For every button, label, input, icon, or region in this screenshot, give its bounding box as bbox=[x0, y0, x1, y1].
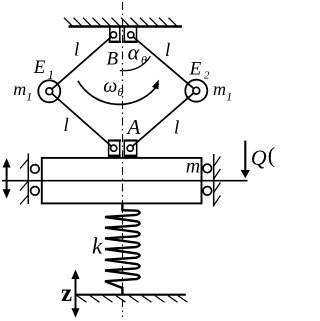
svg-text:m: m bbox=[13, 79, 26, 99]
svg-text:1: 1 bbox=[48, 67, 55, 82]
ceiling hatching bbox=[64, 18, 177, 26]
spring k bbox=[105, 204, 140, 296]
wire: rod l bottom-right (E2 to pin A-right) bbox=[130, 91, 196, 149]
bottom-right clevis bracket at A bbox=[123, 139, 137, 141]
rotation arc omega0 bbox=[78, 81, 159, 105]
long horizontal equilibrium line bbox=[2, 180, 248, 182]
left guide wall bbox=[27, 154, 29, 205]
angle arc alpha0 bbox=[120, 56, 151, 70]
svg-text:2: 2 bbox=[204, 70, 210, 82]
motor E1 outer circle bbox=[38, 80, 60, 102]
svg-text:θ: θ bbox=[141, 53, 147, 67]
svg-text:E: E bbox=[189, 58, 202, 79]
left roller upper bbox=[31, 165, 40, 174]
top-left clevis bracket at B bbox=[110, 28, 120, 42]
svg-text:(: ( bbox=[268, 142, 275, 167]
svg-text:α: α bbox=[128, 40, 140, 65]
arrowhead of omega0 arc bbox=[152, 80, 159, 90]
left roller lower bbox=[31, 187, 40, 196]
right roller upper bbox=[203, 164, 212, 173]
top-left pin circle bbox=[110, 32, 116, 38]
bottom-right pin circle bbox=[127, 145, 133, 151]
svg-text:Q: Q bbox=[251, 145, 267, 170]
svg-text:1: 1 bbox=[226, 89, 232, 103]
ceiling line (fixed support) bbox=[69, 25, 183, 27]
motor E1 inner hub bbox=[46, 88, 53, 95]
svg-text:z: z bbox=[61, 280, 72, 307]
svg-text:l: l bbox=[74, 39, 79, 60]
wire: rod l top-left (pin B-left to E1) bbox=[49, 35, 113, 91]
svg-text:l: l bbox=[64, 115, 69, 136]
ground line bbox=[75, 294, 186, 296]
ground hatching bbox=[77, 296, 188, 303]
wire: rod l top-right (pin B-right to E2) bbox=[131, 35, 197, 91]
motor E2 inner hub bbox=[193, 87, 200, 94]
svg-text:A: A bbox=[126, 115, 141, 139]
svg-text:m: m bbox=[186, 156, 200, 178]
platform (mass m) rectangle bbox=[42, 158, 202, 204]
left guide hatching bbox=[20, 159, 28, 205]
svg-text:B: B bbox=[107, 49, 119, 70]
wire: rod l bottom-left (E1 to pin A-left) bbox=[49, 91, 113, 148]
right guide wall bbox=[213, 154, 215, 207]
right roller lower bbox=[203, 187, 212, 196]
svg-text:1: 1 bbox=[26, 89, 32, 103]
bottom-left pin circle bbox=[111, 145, 117, 151]
top-right clevis bracket at B bbox=[124, 28, 136, 42]
svg-text:ω: ω bbox=[103, 75, 117, 97]
svg-text:k: k bbox=[92, 234, 103, 259]
top-right pin circle bbox=[128, 32, 134, 38]
svg-text:l: l bbox=[174, 118, 179, 139]
motor E2 outer circle bbox=[185, 80, 207, 102]
vertical centerline (dash-dot axis) bbox=[122, 2, 124, 317]
svg-text:E: E bbox=[33, 57, 46, 78]
svg-text:m: m bbox=[213, 79, 226, 99]
svg-text:l: l bbox=[165, 40, 170, 61]
left double-headed arrow (vertical motion) bbox=[6, 163, 8, 194]
force arrow Q(t) bbox=[244, 141, 246, 172]
svg-text:θ: θ bbox=[118, 85, 124, 99]
z axis double-headed arrow bbox=[75, 274, 77, 313]
bottom-left clevis bracket at A bbox=[108, 139, 121, 141]
right guide hatching bbox=[214, 157, 221, 206]
